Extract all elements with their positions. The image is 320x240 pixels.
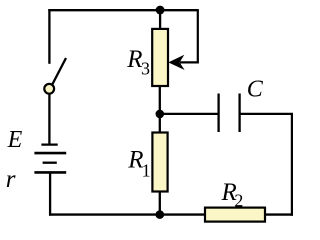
node top junction	[156, 6, 165, 15]
svg-text:1: 1	[142, 161, 151, 181]
wire right loop vertical	[197, 9, 199, 62]
battery long plate 2	[34, 171, 66, 174]
wire capacitor to right	[240, 113, 293, 115]
node bottom junction	[156, 210, 165, 219]
switch S blade	[52, 58, 66, 85]
wire battery to bottom	[49, 172, 51, 215]
resistor R3 body	[152, 29, 168, 86]
svg-text:r: r	[6, 166, 16, 193]
wire R1 to bottom node	[159, 192, 161, 215]
resistor R1 body	[152, 133, 167, 192]
svg-text:E: E	[7, 127, 23, 153]
capacitor C left plate	[217, 94, 219, 133]
node mid junction	[156, 110, 165, 119]
wire switch to battery	[48, 94, 50, 144]
switch S pivot circle	[44, 84, 54, 94]
battery long plate 1	[34, 152, 66, 155]
wire top horizontal	[48, 9, 198, 11]
capacitor C right plate	[238, 94, 240, 133]
rheostat arrowhead	[168, 55, 184, 70]
wire mid node to capacitor	[160, 113, 219, 115]
svg-text:3: 3	[141, 59, 150, 79]
battery top short plate	[41, 143, 57, 145]
wire mid node to R1	[159, 114, 161, 133]
battery short plate 2	[43, 162, 57, 164]
wire top dot to R3	[159, 10, 161, 30]
svg-text:2: 2	[234, 191, 243, 211]
wire rheostat arrow tail	[180, 61, 199, 63]
wire right vertical	[291, 114, 293, 216]
wire left vertical upper	[48, 9, 50, 64]
svg-text:C: C	[247, 76, 264, 102]
wire R3 to mid node	[159, 86, 161, 114]
resistor R2 body	[205, 208, 265, 222]
wire bottom horizontal	[49, 213, 293, 215]
